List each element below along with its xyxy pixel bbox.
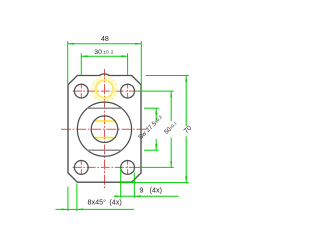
dimension 70: extension lines <box>120 76 189 183</box>
svg-text:30±0.2: 30±0.2 <box>94 49 114 56</box>
svg-text:9(4x): 9(4x) <box>139 186 162 195</box>
dimension 8x45 (4x): extension lines <box>68 184 77 211</box>
dimension 50±0.1: dimension line (gap for text) <box>170 91 172 121</box>
dimension 50±0.1: extension lines <box>137 91 174 167</box>
dimension 9 (4x): dimension line with outside arrows <box>114 195 120 197</box>
red centerline bottom hole row <box>73 166 137 168</box>
central bore circle <box>91 116 118 143</box>
dimension 48: dimension line <box>68 43 142 45</box>
bolt hole A1 <box>74 84 88 98</box>
svg-text:70: 70 <box>183 125 194 136</box>
plate outline with chamfered corners and top bump <box>68 74 141 182</box>
red centerline hole A4 vertical <box>127 160 129 176</box>
bolt hole A3 <box>74 161 88 175</box>
dimension Sw 27.5: extension lines <box>144 108 159 150</box>
red centerline hole A1 vertical <box>80 84 82 100</box>
red centerline hole A3 vertical <box>80 160 82 176</box>
bolt hole A2 <box>121 84 135 98</box>
dimension 48: extension lines <box>68 41 142 91</box>
central boss circle <box>77 102 131 156</box>
red centerline hole A2 vertical <box>127 84 129 100</box>
dimension 8x45 (4x): dimension line with outside arrows <box>55 208 68 210</box>
highlighted hole H1 glow halo (top center) <box>94 79 115 100</box>
dimension 9 (4x): extension lines <box>121 168 135 198</box>
svg-text:8x45°(4x): 8x45°(4x) <box>88 198 122 207</box>
red centerline vertical (plate axis) <box>104 69 106 189</box>
dimension 30±0.2: dimension line <box>81 55 127 57</box>
highlighted hole H1 rings <box>93 77 117 101</box>
dimension 70: dimension line (gap for text) <box>185 76 187 127</box>
dimension 30±0.2: extension lines <box>81 53 127 75</box>
highlighted hole H1 silhouette lines through bore <box>93 121 116 138</box>
red centerline horizontal (bore axis) <box>61 128 148 130</box>
bolt hole A4 <box>121 161 135 175</box>
red centerline top hole row <box>73 90 137 92</box>
svg-text:48: 48 <box>101 36 109 43</box>
svg-text:50±0.1: 50±0.1 <box>163 120 179 136</box>
wrench flat top (gray) <box>88 107 122 109</box>
dimension Sw 27.5: dimension line (gap for text) <box>155 108 157 120</box>
wrench flat bottom (gray) <box>88 149 122 151</box>
